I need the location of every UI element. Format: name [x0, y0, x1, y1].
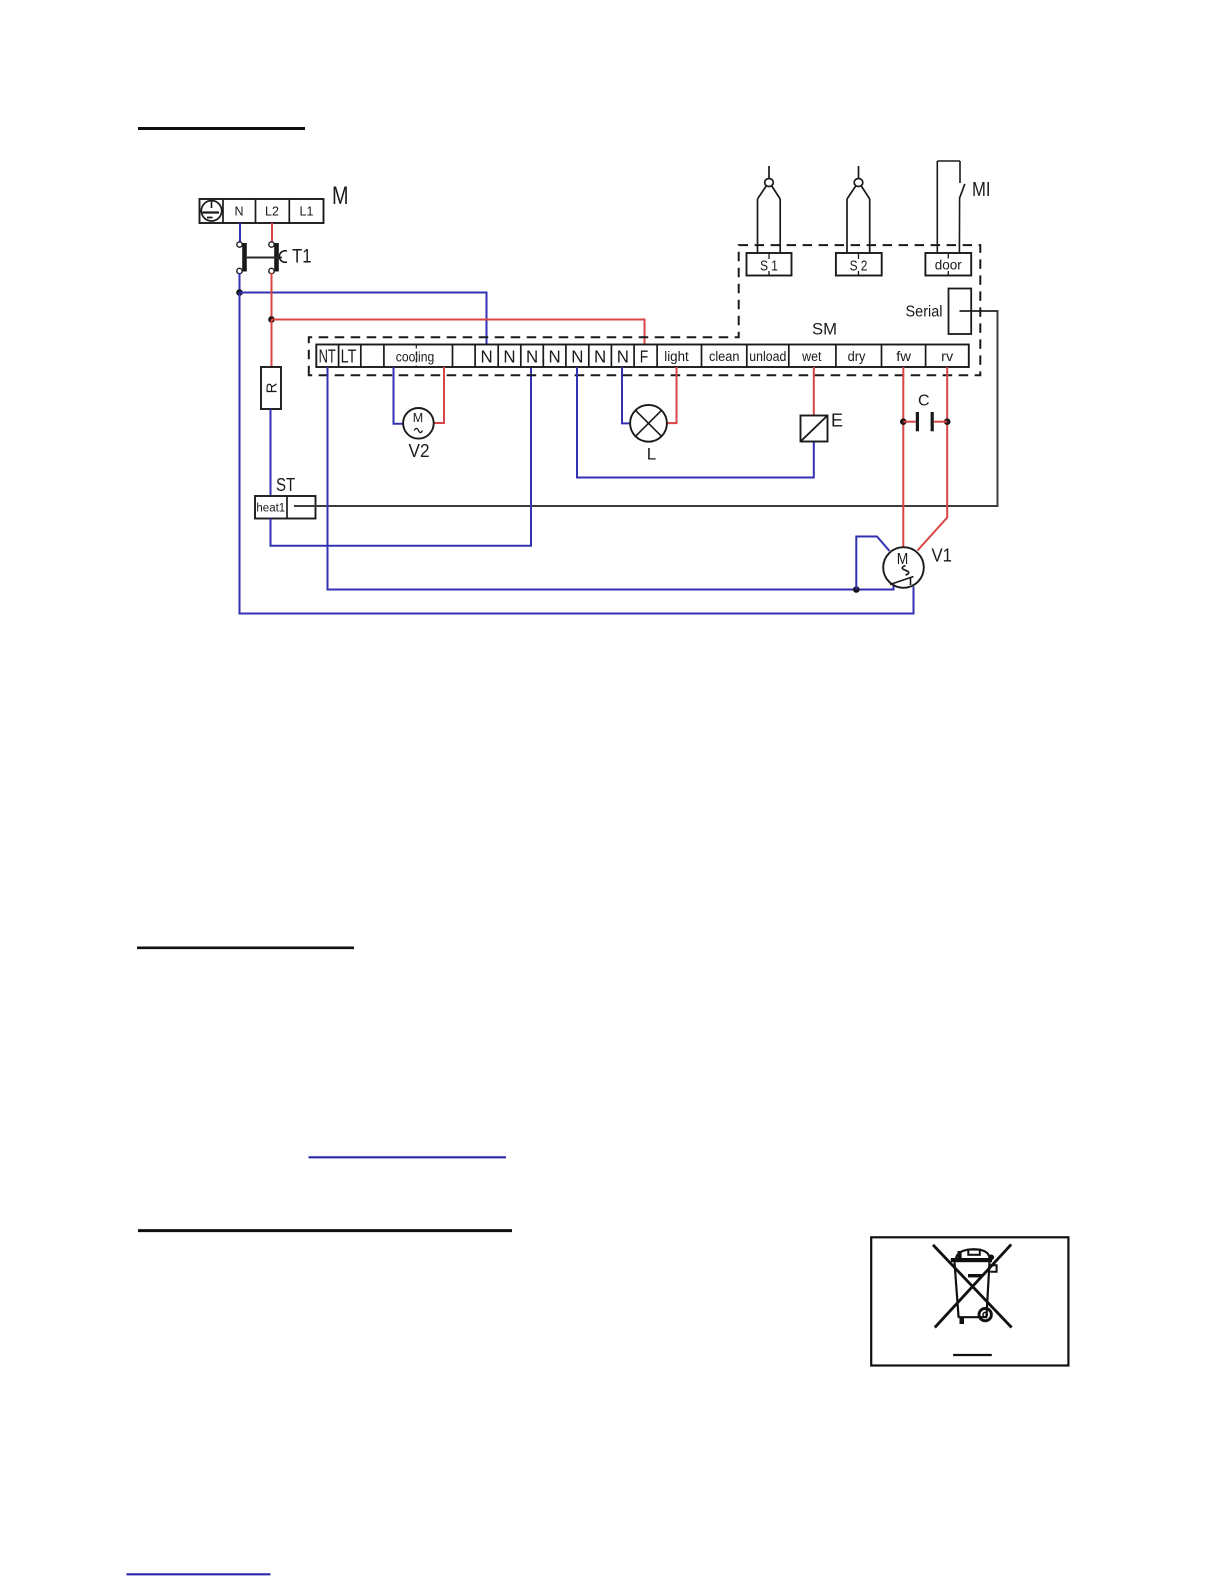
inner bar: [968, 1274, 983, 1277]
svg-text:N: N: [234, 205, 243, 219]
resistor R: [261, 367, 281, 409]
wire blue heat1 to terminal N3: [271, 367, 532, 546]
svg-text:clean: clean: [709, 349, 740, 364]
svg-text:N: N: [549, 347, 561, 367]
serial connector box: [906, 289, 972, 335]
wire blue cooling to fan V2: [394, 367, 404, 424]
hyperlink underline (blue): [309, 1156, 507, 1158]
wire red cooling to fan V2: [434, 367, 444, 423]
svg-text:SM: SM: [812, 320, 837, 339]
bin lid dome: [956, 1249, 990, 1258]
mains terminal block M: [200, 199, 324, 223]
relay contact T1: [237, 242, 312, 274]
wire red node B to terminal F: [272, 320, 645, 345]
node B (junction dot, line): [268, 316, 275, 323]
wire blue T1 down to node A: [239, 273, 241, 293]
svg-text:cooling: cooling: [396, 350, 435, 365]
svg-text:fw: fw: [896, 349, 911, 364]
svg-text:Serial: Serial: [906, 304, 943, 321]
wire blue NT to motor V1 run: [328, 367, 894, 590]
cross line 1: [933, 1245, 1012, 1328]
svg-text:N: N: [481, 347, 493, 367]
wheel: [979, 1308, 991, 1320]
svg-text:rv: rv: [941, 349, 953, 364]
lid handle: [968, 1250, 980, 1255]
svg-text:V1: V1: [932, 546, 953, 566]
wire L2 (red) M to T1: [271, 223, 273, 242]
svg-text:N: N: [617, 347, 629, 367]
SM module dashed outline: [309, 245, 981, 375]
terminal strip of SM: [316, 345, 969, 368]
svg-text:N: N: [571, 347, 583, 367]
cross line 2: [935, 1244, 1011, 1327]
wire blue bracket to motor V1 aux: [856, 537, 889, 590]
thermostat heat1 box: [255, 496, 316, 519]
bin bottom: [958, 1316, 987, 1318]
terminal labels: [319, 347, 954, 367]
door interlock switch MI: [937, 161, 990, 253]
svg-text:R: R: [264, 382, 281, 393]
wire red rv to motor V1: [918, 367, 948, 551]
svg-text:V2: V2: [409, 441, 430, 461]
footer hyperlink underline (blue): [127, 1573, 271, 1575]
node A (junction dot, neutral): [236, 289, 243, 296]
svg-text:M: M: [332, 182, 349, 210]
wire blue R to thermostat ST: [270, 409, 272, 496]
svg-text:NT: NT: [319, 347, 336, 367]
sensor S1: [747, 166, 792, 276]
svg-text:unload: unload: [749, 349, 786, 364]
bin lid bar: [951, 1258, 992, 1262]
svg-text:ST: ST: [276, 475, 295, 495]
heading underline 3: [138, 1229, 512, 1232]
serial communication line (dark) heat1 to Serial: [294, 311, 998, 506]
heading underline 2: [137, 946, 354, 949]
lid end dot right: [989, 1255, 995, 1261]
svg-text:N: N: [594, 347, 606, 367]
wire N (blue) M to T1: [239, 223, 241, 242]
sensor S2: [836, 166, 882, 276]
bracket right: [990, 1265, 997, 1272]
lid hinge left: [958, 1251, 962, 1259]
wire blue N7 to lamp L: [622, 367, 630, 423]
node C (junction dot on NT run): [853, 586, 860, 593]
earth symbol in block M: [201, 201, 221, 221]
fan motor V2: [403, 408, 434, 461]
wire red fw to motor V1: [902, 367, 904, 548]
wire blue node A down-right to motor V1 (bottom run): [240, 293, 914, 614]
wire red wet to heater E: [813, 367, 815, 416]
svg-text:S 1: S 1: [760, 258, 778, 275]
svg-text:T1: T1: [292, 247, 312, 268]
svg-text:light: light: [664, 349, 689, 364]
svg-text:wet: wet: [801, 349, 821, 364]
WEEE symbol frame: [871, 1237, 1068, 1365]
svg-text:C: C: [918, 393, 930, 410]
capacitor C: [900, 393, 951, 432]
door switch box: [925, 253, 971, 276]
svg-text:M: M: [413, 411, 423, 425]
svg-text:LT: LT: [341, 347, 357, 367]
wire blue node A to terminal N1: [240, 293, 487, 345]
wire red T1 down to node B: [271, 273, 273, 320]
svg-text:L2: L2: [265, 205, 279, 219]
svg-text:E: E: [831, 411, 843, 431]
WEEE crossed-out wheeled bin: [933, 1244, 1012, 1355]
svg-text:L: L: [647, 445, 656, 464]
svg-text:F: F: [640, 347, 649, 367]
svg-text:S 2: S 2: [850, 258, 868, 275]
wire red light to lamp L: [667, 367, 677, 423]
svg-text:N: N: [526, 347, 538, 367]
foot left: [960, 1318, 965, 1325]
svg-text:heat1: heat1: [256, 503, 285, 515]
svg-text:dry: dry: [848, 349, 866, 364]
svg-text:door: door: [935, 257, 962, 273]
bin body: [955, 1262, 990, 1317]
bar beneath bin: [953, 1354, 992, 1356]
lamp L: [630, 405, 667, 464]
wire red node B down to resistor R: [271, 320, 273, 368]
svg-text:L1: L1: [300, 205, 314, 219]
svg-text:N: N: [503, 347, 515, 367]
wire blue N5 to heater E: [577, 367, 814, 478]
drum motor V1: [883, 546, 952, 588]
heater element E: [801, 411, 844, 442]
svg-text:M: M: [897, 551, 909, 568]
heading underline 1: [138, 127, 305, 130]
svg-text:MI: MI: [972, 179, 991, 201]
